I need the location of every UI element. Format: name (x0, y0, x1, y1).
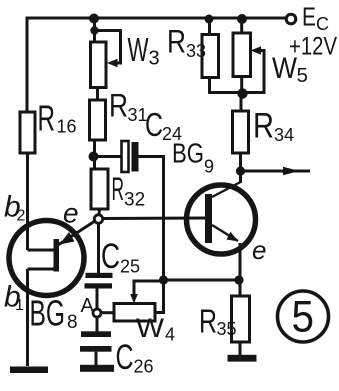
svg-text:26: 26 (134, 357, 154, 377)
ground (R35) (228, 355, 257, 362)
junction R33/W5 bottom (237, 88, 247, 98)
svg-text:33: 33 (186, 41, 206, 61)
svg-text:W: W (128, 31, 150, 68)
wire R34 to collector node (239, 153, 242, 171)
resistor R35 (232, 296, 250, 342)
svg-text:R: R (167, 24, 186, 60)
junction on rail at W3 branch (89, 14, 99, 24)
label W4 (136, 313, 175, 345)
label BG9 (172, 138, 214, 177)
wire junction to R34 (240, 93, 243, 111)
svg-text:5: 5 (297, 64, 308, 87)
svg-text:R: R (199, 303, 217, 340)
label R31 (109, 88, 148, 126)
svg-text:C: C (116, 338, 134, 377)
wire BG8 b1 to ground (26, 269, 29, 366)
transistor BG9 (187, 171, 256, 280)
label R16 (38, 98, 77, 139)
junction R31/R32/C24 (89, 152, 99, 162)
svg-text:3: 3 (149, 48, 160, 70)
wire W3 to R31 (96, 88, 99, 101)
svg-text:34: 34 (274, 125, 294, 145)
figure number circle 5 (278, 291, 329, 342)
svg-text:e: e (63, 198, 79, 229)
junction on rail at R33 branch (205, 15, 214, 24)
wire R35 to ground (239, 342, 242, 355)
junction collector/output (236, 166, 245, 175)
junction on rail at W5 branch (237, 14, 247, 24)
label R32 (112, 171, 146, 211)
potentiometer W3 (91, 31, 121, 88)
label BG8 (30, 293, 78, 334)
capacitor C26 (80, 331, 112, 351)
capacitor C24 (122, 141, 139, 172)
svg-text:W: W (272, 52, 298, 85)
svg-text:R: R (38, 98, 56, 139)
potentiometer W4 (114, 281, 164, 321)
svg-text:C: C (101, 237, 120, 276)
svg-text:E: E (302, 2, 316, 32)
resistor R34 (233, 111, 249, 153)
svg-text:2: 2 (17, 208, 26, 225)
wire R16 to BG8 b2 (26, 153, 29, 225)
svg-text:W: W (136, 313, 165, 343)
svg-text:e: e (252, 235, 266, 265)
label b1 (4, 281, 24, 315)
label R34 (253, 107, 294, 146)
wire node e to C25 (97, 224, 100, 274)
ground (C26) (80, 365, 114, 372)
node A junction circle (93, 309, 101, 317)
label W3 (128, 31, 160, 70)
wire C26 to ground (95, 352, 98, 365)
wire node A to W4 (101, 311, 114, 314)
svg-text:A: A (81, 295, 95, 317)
svg-text:16: 16 (57, 117, 77, 137)
wire C24 to W4 node (139, 157, 164, 281)
resistor R32 (91, 169, 108, 209)
wire junction to C24 (93, 155, 122, 158)
wire top supply rail (27, 18, 286, 112)
label W5 (272, 52, 308, 87)
wire C25 to node A (96, 289, 99, 310)
label Ec (302, 2, 329, 35)
wire rail to W3 (93, 18, 96, 42)
transistor BG8 (9, 221, 95, 296)
svg-text:R: R (253, 107, 274, 146)
label C25 (101, 237, 140, 277)
junction emitter/R35 (234, 275, 243, 284)
potentiometer W5 (233, 18, 264, 94)
svg-text:25: 25 (120, 257, 140, 277)
svg-text:C: C (316, 14, 329, 34)
resistor R33 (202, 18, 242, 93)
svg-text:4: 4 (165, 325, 175, 345)
label C26 (116, 338, 154, 377)
junction W3 wiper tie (90, 26, 98, 34)
svg-text:R: R (112, 171, 125, 207)
svg-text:35: 35 (217, 319, 237, 339)
wire node e to BG9 base (103, 217, 205, 221)
wire W4 node to BG9 emitter node (164, 279, 240, 282)
label b2 (4, 191, 26, 225)
wire R32 to node e (98, 209, 102, 215)
capacitor C25 (85, 273, 113, 289)
label C24 (145, 106, 182, 144)
ground (BG8 b1) (10, 367, 48, 374)
resistor R16 (20, 112, 35, 153)
svg-text:8: 8 (67, 312, 78, 333)
junction C24/W4/emitter line (159, 275, 168, 284)
resistor R31 (90, 100, 106, 140)
wire emitter node to R35 (239, 280, 242, 296)
wire output with arrow (241, 167, 311, 175)
svg-text:C: C (145, 106, 163, 143)
svg-text:5: 5 (292, 293, 315, 342)
svg-text:BG: BG (30, 293, 66, 334)
node e junction circle (94, 215, 102, 223)
terminal Ec (286, 14, 296, 24)
wire node A to C26 (96, 317, 99, 332)
wire R31 to junction (93, 140, 96, 169)
label R35 (199, 303, 237, 340)
label R33 (167, 24, 206, 62)
svg-text:9: 9 (204, 157, 214, 177)
svg-text:R: R (109, 88, 128, 124)
svg-text:32: 32 (124, 190, 145, 211)
svg-text:BG: BG (172, 138, 204, 169)
svg-text:1: 1 (15, 297, 24, 314)
